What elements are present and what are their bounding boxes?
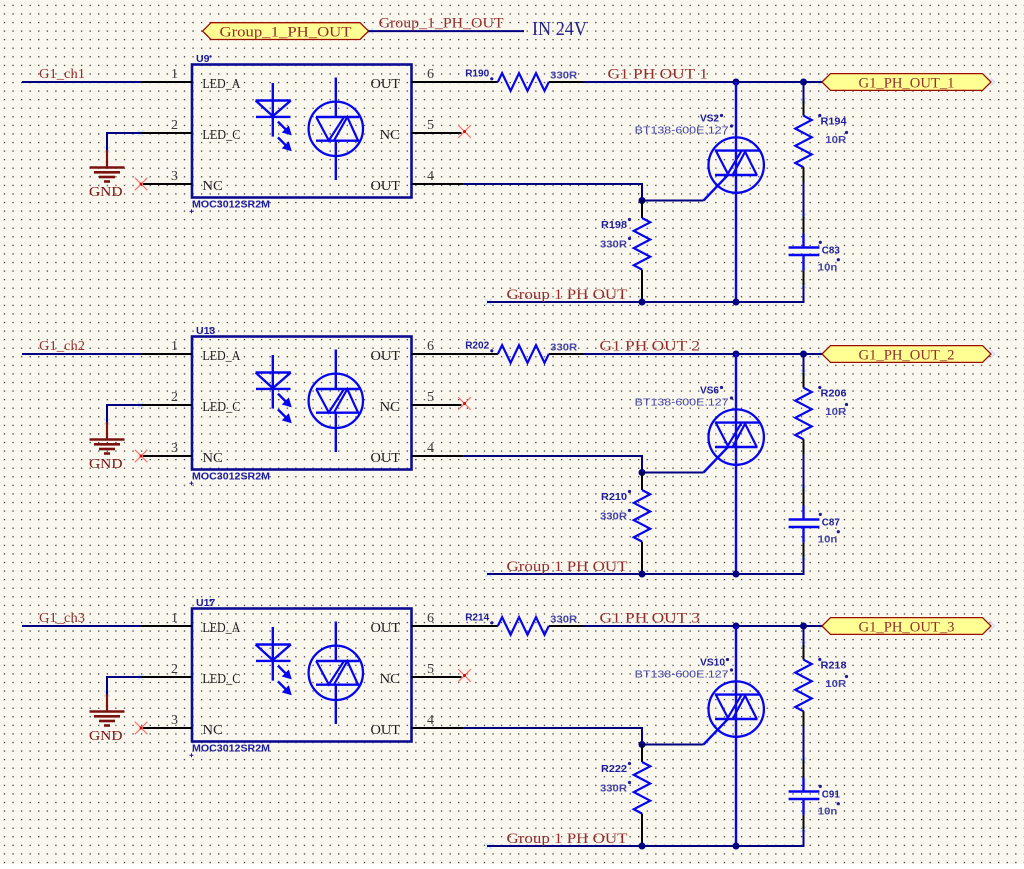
wire pin2 to ground xyxy=(107,677,143,694)
svg-text:G1 PH OUT 2: G1 PH OUT 2 xyxy=(600,339,701,355)
ground GND xyxy=(89,150,125,200)
svg-text:10R: 10R xyxy=(825,406,846,418)
wire hotspot markers xyxy=(104,78,994,305)
photo-triac of U13 xyxy=(309,350,363,453)
svg-text:MOC3012SR2M: MOC3012SR2M xyxy=(192,471,270,483)
pin 4 OUT xyxy=(412,455,464,457)
svg-text:1: 1 xyxy=(171,339,178,354)
svg-text:2: 2 xyxy=(171,662,178,677)
pin 6 OUT xyxy=(412,353,463,355)
svg-text:NC: NC xyxy=(380,128,401,143)
junction bus/triac xyxy=(733,299,740,306)
optocoupler U9 MOC3012SR2M xyxy=(142,53,464,214)
svg-text:VS2: VS2 xyxy=(700,113,719,125)
resistor R214 330R xyxy=(465,612,583,635)
svg-text:GND: GND xyxy=(89,729,123,744)
no-connect X on pin 5 xyxy=(458,125,471,138)
pin 2 LED_C xyxy=(142,676,192,678)
wire pin2 to ground xyxy=(107,133,143,150)
svg-text:330R: 330R xyxy=(600,239,627,251)
svg-text:G1_PH_OUT_2: G1_PH_OUT_2 xyxy=(859,347,955,363)
pin 1 LED_A xyxy=(142,625,192,627)
pin 2 LED_C xyxy=(142,404,192,406)
resistor R194 10R xyxy=(795,82,848,182)
pin 3 NC xyxy=(143,183,192,185)
wire capacitor to bus xyxy=(803,543,805,558)
svg-text:330R: 330R xyxy=(600,783,627,795)
svg-text:Group 1 PH OUT: Group 1 PH OUT xyxy=(507,559,628,575)
svg-text:2: 2 xyxy=(171,390,178,405)
svg-text:6: 6 xyxy=(427,67,434,82)
svg-text:G1_ch3: G1_ch3 xyxy=(39,611,85,626)
svg-text:IN 24V: IN 24V xyxy=(532,19,587,40)
pin 2 LED_C xyxy=(142,132,192,134)
svg-text:U9: U9 xyxy=(196,53,210,65)
junction at snubber top xyxy=(800,79,807,86)
resistor R202 330R xyxy=(465,340,583,363)
wire gate node to triac gate xyxy=(642,472,704,474)
svg-text:LED_A: LED_A xyxy=(202,349,241,364)
svg-text:R206: R206 xyxy=(821,388,847,400)
junction bus/resistor xyxy=(639,571,646,578)
svg-text:R214: R214 xyxy=(465,612,489,624)
port G1_PH_OUT_3 xyxy=(822,618,991,636)
wire net G1 PH OUT 2 xyxy=(583,353,822,355)
junction bus/resistor xyxy=(639,843,646,850)
svg-text:5: 5 xyxy=(427,390,434,405)
svg-text:LED_C: LED_C xyxy=(202,400,240,415)
svg-text:330R: 330R xyxy=(600,511,627,523)
no-connect X on pin 3 xyxy=(135,450,148,463)
svg-text:330R: 330R xyxy=(550,342,577,354)
svg-text:OUT: OUT xyxy=(371,179,401,194)
no-connect X on pin 5 xyxy=(458,669,471,682)
svg-text:NC: NC xyxy=(380,672,401,687)
svg-text:R218: R218 xyxy=(821,660,847,672)
svg-text:U17: U17 xyxy=(196,597,215,609)
svg-text:OUT: OUT xyxy=(371,723,401,738)
pin 5 NC xyxy=(412,132,462,134)
svg-text:6: 6 xyxy=(427,339,434,354)
svg-text:NC: NC xyxy=(202,179,223,194)
svg-text:G1_ch2: G1_ch2 xyxy=(39,339,85,354)
junction at triac top xyxy=(733,623,740,630)
wire pin6 to resistor R214 xyxy=(462,625,498,627)
pin 5 NC xyxy=(412,404,462,406)
wire hotspot markers xyxy=(104,350,994,577)
port Group_1_PH_OUT (header) xyxy=(203,23,369,41)
svg-text:MOC3012SR2M: MOC3012SR2M xyxy=(192,199,270,211)
wire pin2 to ground xyxy=(107,405,143,422)
svg-text:Group_1_PH_OUT: Group_1_PH_OUT xyxy=(220,24,352,40)
wire pin6 to resistor R202 xyxy=(462,353,498,355)
resistor R206 10R xyxy=(795,354,848,454)
svg-text:MOC3012SR2M: MOC3012SR2M xyxy=(192,743,270,755)
U13 body xyxy=(192,337,412,470)
junction bus/triac xyxy=(733,571,740,578)
svg-text:G1_PH_OUT_1: G1_PH_OUT_1 xyxy=(859,75,955,91)
wire net G1_ch1 input xyxy=(22,81,142,83)
wire resistor to capacitor xyxy=(803,726,805,761)
wire resistor to capacitor xyxy=(803,454,805,489)
U9 body xyxy=(192,65,412,198)
wire pin6 to resistor R190 xyxy=(462,81,498,83)
optocoupler U13 MOC3012SR2M xyxy=(142,325,464,486)
pin 5 NC xyxy=(412,676,462,678)
svg-text:LED_A: LED_A xyxy=(202,621,241,636)
svg-text:C83: C83 xyxy=(822,245,840,257)
optocoupler U17 MOC3012SR2M xyxy=(142,597,464,758)
svg-text:G1 PH OUT 1: G1 PH OUT 1 xyxy=(608,67,709,83)
wire net G1_ch2 input xyxy=(22,353,142,355)
junction at snubber top xyxy=(800,351,807,358)
svg-text:G1_ch1: G1_ch1 xyxy=(39,67,85,82)
port G1_PH_OUT_1 xyxy=(822,74,991,92)
svg-text:OUT: OUT xyxy=(371,451,401,466)
no-connect X on pin 3 xyxy=(135,178,148,191)
photo-triac of U9 xyxy=(309,78,363,181)
capacitor C87 10n xyxy=(789,506,840,546)
svg-text:1: 1 xyxy=(171,611,178,626)
LED emitter symbol xyxy=(256,627,291,695)
svg-text:OUT: OUT xyxy=(371,349,401,364)
wire pin4 to gate node xyxy=(464,184,642,201)
svg-text:Group 1 PH OUT: Group 1 PH OUT xyxy=(507,287,628,303)
wire pin4 to gate node xyxy=(464,728,642,745)
svg-text:3: 3 xyxy=(171,169,178,184)
svg-text:LED_C: LED_C xyxy=(202,672,240,687)
ground GND xyxy=(89,422,125,472)
svg-text:BT138-600E.127: BT138-600E.127 xyxy=(635,669,729,681)
svg-text:OUT: OUT xyxy=(371,621,401,636)
svg-text:R194: R194 xyxy=(821,116,847,128)
triac gate lead xyxy=(704,718,729,744)
junction at snubber top xyxy=(800,623,807,630)
junction at triac top xyxy=(733,351,740,358)
pin 6 OUT xyxy=(412,625,463,627)
svg-text:330R: 330R xyxy=(550,614,577,626)
svg-text:C87: C87 xyxy=(822,517,840,529)
wire capacitor to bus xyxy=(803,815,805,830)
svg-text:3: 3 xyxy=(171,441,178,456)
svg-text:3: 3 xyxy=(171,713,178,728)
svg-text:R202: R202 xyxy=(465,340,489,352)
svg-text:4: 4 xyxy=(427,441,434,456)
wire net G1 PH OUT 3 xyxy=(583,625,822,627)
wire Group 1 PH OUT to IN 24V xyxy=(369,30,525,32)
triac gate lead xyxy=(704,446,729,472)
junction gate node xyxy=(639,197,646,204)
ground GND xyxy=(89,694,125,744)
svg-text:NC: NC xyxy=(202,723,223,738)
svg-text:U13: U13 xyxy=(196,325,215,337)
svg-text:2: 2 xyxy=(171,118,178,133)
svg-text:G1 PH OUT 3: G1 PH OUT 3 xyxy=(600,611,701,627)
pin 3 NC xyxy=(143,455,192,457)
svg-text:Group 1 PH OUT: Group 1 PH OUT xyxy=(507,831,628,847)
triac VS2 BT138-600E.127 xyxy=(635,82,764,302)
svg-text:10n: 10n xyxy=(818,806,838,818)
wire capacitor to bus xyxy=(803,271,805,286)
svg-text:6: 6 xyxy=(427,611,434,626)
resistor R198 330R xyxy=(600,201,650,303)
svg-text:Group_1_PH_OUT: Group_1_PH_OUT xyxy=(379,16,504,32)
svg-text:1: 1 xyxy=(171,67,178,82)
svg-text:R210: R210 xyxy=(601,491,627,503)
triac gate lead xyxy=(704,174,729,200)
LED emitter symbol xyxy=(256,83,291,151)
junction bus/triac xyxy=(733,843,740,850)
resistor R222 330R xyxy=(600,745,650,847)
svg-text:R222: R222 xyxy=(601,763,627,775)
svg-text:OUT: OUT xyxy=(371,77,401,92)
svg-text:NC: NC xyxy=(380,400,401,415)
svg-text:10R: 10R xyxy=(825,134,846,146)
LED emitter symbol xyxy=(256,355,291,423)
junction gate node xyxy=(639,469,646,476)
svg-text:10n: 10n xyxy=(818,262,838,274)
wire gate node to triac gate xyxy=(642,200,704,202)
svg-text:VS10: VS10 xyxy=(700,657,725,669)
capacitor C83 10n xyxy=(789,234,840,274)
svg-text:5: 5 xyxy=(427,118,434,133)
svg-text:5: 5 xyxy=(427,662,434,677)
wire hotspot marker (header) xyxy=(368,28,374,34)
pin 1 LED_A xyxy=(142,353,192,355)
svg-text:NC: NC xyxy=(202,451,223,466)
svg-text:GND: GND xyxy=(89,185,123,200)
svg-text:LED_A: LED_A xyxy=(202,77,241,92)
triac VS10 BT138-600E.127 xyxy=(635,626,764,846)
triac VS6 BT138-600E.127 xyxy=(635,354,764,574)
svg-text:G1_PH_OUT_3: G1_PH_OUT_3 xyxy=(859,619,955,635)
svg-text:BT138-600E.127: BT138-600E.127 xyxy=(635,397,729,409)
svg-text:10R: 10R xyxy=(825,678,846,690)
U17 body xyxy=(192,609,412,742)
resistor R210 330R xyxy=(600,473,650,575)
wire hotspot markers xyxy=(104,622,994,849)
svg-text:BT138-600E.127: BT138-600E.127 xyxy=(635,125,729,137)
resistor R218 10R xyxy=(795,626,848,726)
wire net G1 PH OUT 1 xyxy=(583,81,822,83)
pin 4 OUT xyxy=(412,727,464,729)
svg-text:GND: GND xyxy=(89,457,123,472)
pin 6 OUT xyxy=(412,81,463,83)
photo-triac of U17 xyxy=(309,622,363,725)
pin 4 OUT xyxy=(412,183,464,185)
wire gate node to triac gate xyxy=(642,744,704,746)
no-connect X on pin 5 xyxy=(458,397,471,410)
svg-text:C91: C91 xyxy=(822,789,840,801)
resistor R190 330R xyxy=(465,68,583,91)
wire net G1_ch3 input xyxy=(22,625,142,627)
svg-text:330R: 330R xyxy=(550,70,577,82)
pin 3 NC xyxy=(143,727,192,729)
svg-text:10n: 10n xyxy=(818,534,838,546)
no-connect X on pin 3 xyxy=(135,722,148,735)
svg-text:VS6: VS6 xyxy=(700,385,719,397)
port G1_PH_OUT_2 xyxy=(822,346,991,364)
svg-text:4: 4 xyxy=(427,169,434,184)
wire pin4 to gate node xyxy=(464,456,642,473)
junction at triac top xyxy=(733,79,740,86)
wire resistor to capacitor xyxy=(803,182,805,217)
svg-text:4: 4 xyxy=(427,713,434,728)
svg-text:LED_C: LED_C xyxy=(202,128,240,143)
svg-text:R198: R198 xyxy=(601,219,627,231)
pin 1 LED_A xyxy=(142,81,192,83)
junction bus/resistor xyxy=(639,299,646,306)
svg-text:R190: R190 xyxy=(465,68,489,80)
capacitor C91 10n xyxy=(789,778,840,818)
junction gate node xyxy=(639,741,646,748)
